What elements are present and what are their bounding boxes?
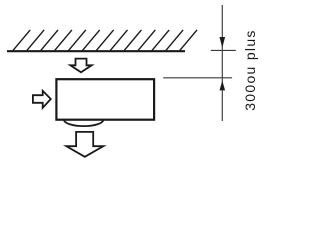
dimension down arrowhead xyxy=(220,37,226,48)
dimension vertical line xyxy=(221,5,223,121)
dimension tick at ceiling level xyxy=(211,49,236,51)
unit box xyxy=(56,79,154,120)
top hollow down arrow xyxy=(70,59,91,73)
left hollow right arrow xyxy=(33,91,51,108)
bottom hollow down arrow xyxy=(66,132,103,157)
ceiling line xyxy=(7,50,185,52)
ceiling hatching xyxy=(13,30,197,51)
svg-text:300ou plus: 300ou plus xyxy=(242,29,258,111)
dimension leader at box top level xyxy=(163,77,232,79)
outlet arc under box xyxy=(64,120,103,126)
dimension up arrowhead xyxy=(220,81,226,91)
